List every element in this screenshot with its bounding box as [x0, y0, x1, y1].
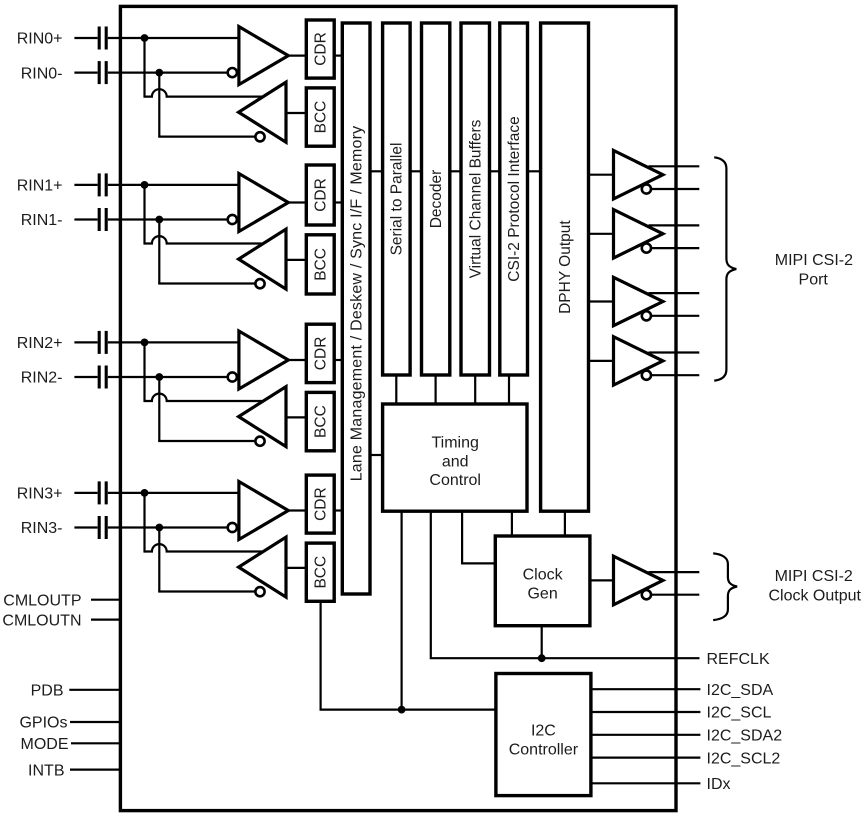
wire CSI-2 lane 0 true output [649, 165, 700, 167]
capacitor (RIN2- AC coupling) [99, 366, 106, 389]
wire RIN3- to inverting input bubble [108, 526, 228, 528]
capacitor (RIN1+ AC coupling) [99, 173, 106, 196]
svg-text:CDR: CDR [313, 487, 330, 521]
CSI-2 lane driver 3 bubble [642, 371, 651, 380]
back channel driver ch1 [239, 229, 286, 289]
wire RIN1- to inverting input bubble [108, 218, 228, 220]
wire BCC block to back channel driver ch3 [286, 567, 307, 569]
capacitor (RIN3- AC coupling) [99, 516, 106, 539]
svg-text:RIN2+: RIN2+ [17, 335, 63, 352]
svg-text:I2C_SCL2: I2C_SCL2 [707, 750, 781, 767]
svg-text:I2C_SCL: I2C_SCL [707, 705, 772, 722]
wire pin CMLOUTP [91, 599, 120, 601]
wire CSI-2 lane 1 true output [649, 224, 700, 226]
wire lane management to timing and control [370, 454, 383, 456]
wire timing and control to REFCLK net [431, 511, 700, 658]
CDR block ch2 [306, 324, 334, 382]
CDR block ch3 [306, 475, 334, 533]
clock output driver bubble [642, 590, 651, 599]
junction on RIN2+ [141, 339, 149, 347]
svg-text:RIN1-: RIN1- [21, 212, 63, 229]
wire RIN0+ to amplifier input [108, 37, 240, 39]
junction on RIN0+ [141, 34, 149, 42]
BCC block ch1 [306, 235, 334, 294]
BCC block ch0 [306, 88, 334, 146]
svg-text:Clock Output: Clock Output [768, 588, 861, 605]
svg-text:RIN2-: RIN2- [21, 370, 63, 387]
wire timing and control to clock gen left [462, 511, 495, 563]
wire pin INTB [70, 768, 120, 770]
wire RIN0+ lead [74, 37, 97, 39]
svg-text:CDR: CDR [313, 178, 330, 212]
wire timing and control to clock gen top [511, 511, 513, 537]
svg-text:MIPI CSI-2: MIPI CSI-2 [775, 252, 853, 269]
wire RIN1+ to amplifier input [108, 184, 240, 186]
svg-text:BCC: BCC [313, 248, 330, 281]
svg-text:REFCLK: REFCLK [707, 651, 770, 668]
junction on RIN1+ [141, 181, 149, 189]
I2C controller block [496, 674, 591, 796]
net label MIPI CSI-2 Clock Output [768, 568, 861, 605]
wire to BCC driver output bubble ch1 [159, 283, 255, 284]
wire CDR ch2 to lane management [334, 359, 343, 361]
wire CDR ch1 to lane management [334, 201, 343, 203]
junction on I2C net [398, 706, 406, 714]
wire RIN0- lead [74, 71, 97, 73]
clock output driver [614, 556, 663, 605]
wire timing and control to I2C net [401, 511, 403, 709]
svg-text:BCC: BCC [313, 101, 330, 134]
wire with crossover hop to BCC driver ch3 [145, 544, 263, 551]
svg-text:MODE: MODE [21, 736, 69, 753]
wire RIN3- lead [74, 526, 97, 528]
svg-text:MIPI CSI-2: MIPI CSI-2 [775, 568, 853, 585]
wire pipeline bus segment 5 [528, 170, 541, 172]
junction on RIN3- [155, 524, 163, 532]
receive amplifier ch1 [239, 174, 288, 232]
brace MIPI CSI-2 clock output [713, 553, 737, 620]
CSI-2 lane driver 0 bubble [642, 184, 651, 193]
svg-text:BCC: BCC [313, 556, 330, 589]
CSI-2 lane driver 0 [614, 151, 663, 199]
clock gen block [495, 536, 590, 626]
wire to BCC driver output bubble ch0 [159, 136, 255, 137]
wire CSI-2 lane 2 complement output [651, 315, 699, 317]
svg-text:Port: Port [799, 271, 829, 288]
inverting input bubble on receive amp ch0 [228, 68, 237, 77]
wire CSI-2 lane 3 true output [649, 351, 700, 353]
wire CSI-2 lane 2 true output [649, 292, 700, 294]
wire with crossover hop to BCC driver ch1 [145, 236, 263, 243]
wire DPHY output to CSI-2 lane driver 0 [589, 174, 614, 176]
svg-text:Lane Management / Deskew / Syn: Lane Management / Deskew / Sync I/F / Me… [348, 126, 365, 482]
svg-text:CSI-2 Protocol Interface: CSI-2 Protocol Interface [506, 116, 523, 281]
wire DPHY output to CSI-2 lane driver 3 [589, 360, 614, 362]
chip boundary box [120, 6, 676, 810]
wire with crossover hop to BCC driver ch0 [145, 89, 263, 96]
wire pin I2C_SCL2 [591, 756, 701, 758]
junction on REFCLK net [538, 654, 546, 662]
wire CDR ch0 to lane management [334, 54, 343, 56]
svg-text:CDR: CDR [313, 337, 330, 371]
svg-text:I2C_SDA: I2C_SDA [707, 682, 774, 699]
wire RIN2+ lead [74, 341, 97, 343]
decoder block [422, 23, 450, 375]
wire clock output true [649, 571, 700, 573]
CSI-2 protocol interface block [500, 23, 528, 375]
wire pipeline bus segment 2 [410, 170, 421, 172]
wire with crossover hop to BCC driver ch2 [145, 394, 263, 401]
wire from RIN0- junction down [158, 73, 160, 137]
wire from RIN3+ junction down [143, 493, 145, 553]
wire clock gen to clock output driver [590, 579, 614, 581]
wire serial to parallel to timing and control [395, 375, 397, 405]
back channel driver ch2 [239, 387, 286, 447]
junction on RIN2- [155, 373, 163, 381]
inverting input bubble on receive amp ch2 [228, 372, 237, 381]
svg-text:Virtual Channel Buffers: Virtual Channel Buffers [468, 119, 485, 278]
wire BCC block to back channel driver ch1 [286, 259, 307, 261]
wire pin I2C_SCL [591, 711, 701, 713]
wire CSI-2 lane 1 complement output [651, 247, 699, 249]
lane management block [342, 23, 370, 594]
svg-text:Serial to Parallel: Serial to Parallel [389, 143, 406, 256]
CDR block ch1 [306, 165, 334, 225]
CSI-2 lane driver 3 [614, 337, 663, 385]
svg-text:CMLOUTP: CMLOUTP [3, 592, 81, 609]
capacitor (RIN3+ AC coupling) [99, 481, 106, 504]
wire RIN3+ lead [74, 492, 97, 494]
svg-text:RIN1+: RIN1+ [17, 178, 63, 195]
svg-text:RIN3-: RIN3- [21, 520, 63, 537]
BCC driver output bubble ch0 [255, 132, 264, 141]
capacitor (RIN0- AC coupling) [99, 61, 106, 84]
svg-text:GPIOs: GPIOs [19, 715, 67, 732]
svg-text:Clock: Clock [523, 567, 564, 584]
wire RIN1- lead [74, 218, 97, 220]
BCC block ch3 [306, 543, 334, 601]
wire CDR ch3 to lane management [334, 509, 343, 511]
wire from RIN0+ junction down [143, 38, 145, 98]
svg-text:I2C: I2C [531, 723, 556, 740]
svg-text:PDB: PDB [31, 683, 64, 700]
wire amp ch2 to CDR [288, 359, 306, 361]
junction on RIN1- [155, 216, 163, 224]
svg-text:I2C_SDA2: I2C_SDA2 [707, 728, 783, 745]
CDR block ch0 [306, 20, 334, 78]
wire amp ch1 to CDR [288, 201, 306, 203]
wire pin I2C_SDA2 [591, 734, 701, 736]
wire pin CMLOUTN [91, 618, 120, 620]
receive amplifier ch3 [239, 482, 288, 540]
wire from RIN1- junction down [158, 220, 160, 284]
wire RIN2- to inverting input bubble [108, 376, 228, 378]
wire pin MODE [71, 742, 120, 744]
capacitor (RIN0+ AC coupling) [99, 27, 106, 50]
back channel driver ch0 [239, 82, 286, 142]
svg-text:CDR: CDR [313, 32, 330, 66]
inverting input bubble on receive amp ch1 [228, 215, 237, 224]
wire DPHY output to clock gen top [564, 511, 566, 537]
wire clock gen to REFCLK junction [541, 626, 543, 659]
wire RIN3+ to amplifier input [108, 492, 240, 494]
wire decoder to timing and control [435, 375, 437, 405]
svg-text:RIN0-: RIN0- [21, 65, 63, 82]
virtual channel buffers block [461, 23, 490, 375]
svg-text:Decoder: Decoder [428, 170, 445, 229]
svg-text:Control: Control [429, 472, 481, 489]
timing and control block [383, 404, 527, 511]
wire pipeline bus segment 1 [370, 170, 383, 172]
wire DPHY output to CSI-2 lane driver 1 [589, 233, 614, 235]
svg-text:and: and [442, 453, 469, 470]
wire RIN1+ lead [74, 184, 97, 186]
svg-text:BCC: BCC [313, 405, 330, 438]
receive amplifier ch0 [239, 27, 288, 85]
wire pin GPIOs [70, 721, 120, 723]
CSI-2 lane driver 2 bubble [642, 311, 651, 320]
capacitor (RIN2+ AC coupling) [99, 331, 106, 354]
wire pin I2C_SDA [591, 688, 701, 690]
wire BCC block to back channel driver ch2 [286, 416, 307, 418]
wire pipeline bus segment 4 [490, 170, 500, 172]
wire pin IDx [591, 782, 701, 784]
svg-text:RIN3+: RIN3+ [17, 486, 63, 503]
wire RIN2+ to amplifier input [108, 341, 240, 343]
wire CSI-2 lane 0 complement output [651, 188, 699, 190]
CSI-2 lane driver 1 [614, 210, 663, 258]
serial to parallel block [383, 23, 411, 375]
brace MIPI CSI-2 port [714, 157, 736, 380]
wire virtual channel buffers to timing and control [474, 375, 476, 405]
wire BCC block ch3 to I2C controller [321, 601, 496, 709]
wire from RIN2- junction down [158, 377, 160, 441]
wire to BCC driver output bubble ch2 [159, 440, 255, 441]
svg-text:Controller: Controller [509, 742, 579, 759]
wire from RIN3- junction down [158, 528, 160, 592]
wire amp ch0 to CDR [288, 54, 306, 56]
inverting input bubble on receive amp ch3 [228, 523, 237, 532]
receive amplifier ch2 [239, 331, 288, 389]
wire BCC block to back channel driver ch0 [286, 112, 307, 114]
wire amp ch3 to CDR [288, 509, 306, 511]
wire from RIN1+ junction down [143, 185, 145, 245]
wire pin PDB [69, 689, 120, 691]
svg-text:INTB: INTB [28, 762, 64, 779]
svg-text:Timing: Timing [431, 435, 478, 452]
wire DPHY output to CSI-2 lane driver 2 [589, 300, 614, 302]
wire clock output complement [651, 594, 699, 596]
BCC driver output bubble ch1 [255, 279, 264, 288]
back channel driver ch3 [239, 537, 286, 597]
svg-text:IDx: IDx [707, 776, 731, 793]
BCC driver output bubble ch3 [255, 587, 264, 596]
net label MIPI CSI-2 Port [775, 252, 853, 288]
capacitor (RIN1- AC coupling) [99, 208, 106, 231]
svg-text:DPHY Output: DPHY Output [557, 220, 574, 314]
wire from RIN2+ junction down [143, 342, 145, 402]
wire RIN0- to inverting input bubble [108, 71, 228, 73]
DPHY output block [541, 23, 589, 511]
junction on RIN3+ [141, 489, 149, 497]
wire CSI-2 lane 3 complement output [651, 374, 699, 376]
svg-text:Gen: Gen [527, 586, 557, 603]
wire CSI-2 protocol interface to timing and control [508, 375, 510, 405]
CSI-2 lane driver 1 bubble [642, 244, 651, 253]
BCC block ch2 [306, 392, 334, 450]
svg-text:CMLOUTN: CMLOUTN [2, 612, 81, 629]
wire RIN2- lead [74, 376, 97, 378]
svg-text:RIN0+: RIN0+ [17, 31, 63, 48]
wire to BCC driver output bubble ch3 [159, 591, 255, 592]
CSI-2 lane driver 2 [614, 277, 663, 325]
wire pipeline bus segment 3 [450, 170, 461, 172]
junction on RIN0- [155, 69, 163, 77]
BCC driver output bubble ch2 [255, 437, 264, 446]
